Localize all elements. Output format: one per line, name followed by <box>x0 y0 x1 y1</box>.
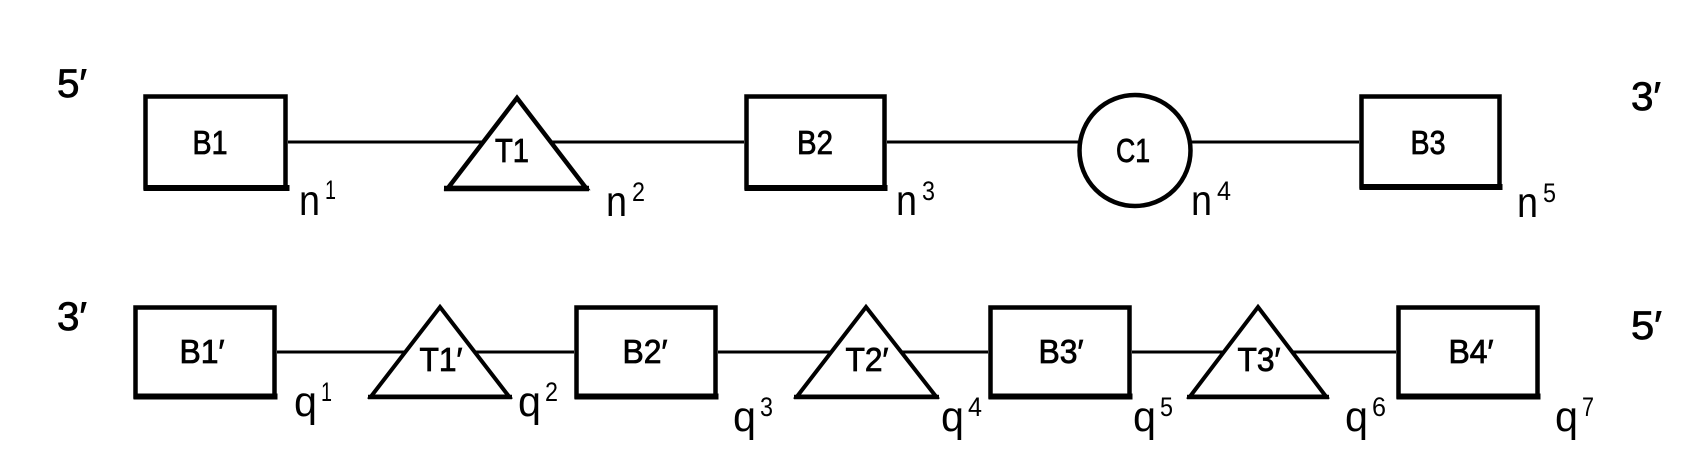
node q2 <box>518 377 558 426</box>
svg-text:B4′: B4′ <box>1449 333 1494 370</box>
node n3 <box>896 176 935 225</box>
svg-text:B1: B1 <box>193 124 228 161</box>
wire n3 (B2 to C1) <box>887 141 1083 144</box>
triangle T3-prime <box>1187 307 1329 397</box>
svg-text:2: 2 <box>545 377 558 407</box>
svg-text:T1: T1 <box>495 132 529 169</box>
svg-text:3′: 3′ <box>1631 75 1661 119</box>
wire n2 (T1 to B2) <box>547 141 744 144</box>
box B3 <box>1360 97 1503 188</box>
triangle T1-prime <box>368 307 512 397</box>
node q3 <box>733 392 773 441</box>
box B1 <box>144 97 290 189</box>
svg-text:n: n <box>1191 177 1212 225</box>
label 3-prime top-right end <box>1631 75 1661 119</box>
svg-text:T3′: T3′ <box>1238 341 1281 378</box>
svg-text:2: 2 <box>632 177 645 207</box>
svg-text:B1′: B1′ <box>180 333 225 370</box>
wire q3 (B2' to T2') <box>718 351 834 354</box>
circle C1 <box>1080 95 1191 206</box>
svg-text:T1′: T1′ <box>420 341 463 378</box>
svg-text:q: q <box>1345 393 1368 441</box>
wire n4 (C1 to B3) <box>1188 141 1359 144</box>
svg-text:3: 3 <box>922 176 935 206</box>
svg-text:B2′: B2′ <box>623 333 668 370</box>
svg-text:n: n <box>896 177 917 225</box>
svg-text:B3: B3 <box>1411 124 1446 161</box>
svg-text:B3′: B3′ <box>1039 333 1084 370</box>
triangle T2-prime <box>794 307 939 397</box>
node q7 <box>1555 392 1594 441</box>
svg-text:q: q <box>1133 393 1156 441</box>
node n1 <box>299 175 336 225</box>
wire q5 (B3' to T3') <box>1132 351 1227 354</box>
svg-text:q: q <box>294 378 317 426</box>
svg-text:q: q <box>941 393 964 441</box>
box B3-prime <box>989 308 1133 397</box>
svg-text:4: 4 <box>968 392 982 422</box>
svg-text:n: n <box>1517 179 1538 227</box>
node n4 <box>1191 176 1231 225</box>
wire n1 (B1 to T1) <box>288 141 486 144</box>
wire q1 (B1' to T1') <box>277 351 408 354</box>
svg-text:n: n <box>299 177 320 225</box>
triangle T1 <box>444 98 589 189</box>
svg-text:q: q <box>1555 393 1578 441</box>
node q1 <box>294 377 332 426</box>
wire q4 (T2' to B3') <box>898 351 988 354</box>
wire q2 (T1' to B2') <box>471 351 574 354</box>
wire q6 (T3' to B4') <box>1290 351 1396 354</box>
box B2 <box>745 97 888 189</box>
svg-text:7: 7 <box>1582 392 1594 422</box>
svg-text:T2′: T2′ <box>846 341 889 378</box>
svg-text:q: q <box>733 393 756 441</box>
svg-text:C1: C1 <box>1116 132 1150 169</box>
node n5 <box>1517 178 1556 227</box>
svg-text:6: 6 <box>1372 392 1386 422</box>
svg-text:5: 5 <box>1160 392 1173 422</box>
svg-text:1: 1 <box>321 377 332 407</box>
node q4 <box>941 392 982 441</box>
box B2-prime <box>575 308 719 397</box>
svg-text:B2: B2 <box>797 124 833 161</box>
svg-text:5′: 5′ <box>57 62 87 106</box>
node q6 <box>1345 392 1386 441</box>
svg-text:5′: 5′ <box>1631 304 1662 348</box>
label 5-prime bottom-right end <box>1631 304 1662 348</box>
node q5 <box>1133 392 1173 441</box>
svg-text:q: q <box>518 378 541 426</box>
svg-text:n: n <box>606 178 627 226</box>
svg-text:5: 5 <box>1543 178 1556 208</box>
label 3-prime bottom-left end <box>57 295 87 339</box>
svg-text:3: 3 <box>760 392 773 422</box>
node n2 <box>606 177 645 226</box>
svg-text:3′: 3′ <box>57 295 87 339</box>
svg-text:1: 1 <box>325 175 336 205</box>
box B4-prime <box>1397 308 1541 397</box>
svg-text:4: 4 <box>1217 176 1231 206</box>
label 5-prime top-left end <box>57 62 87 106</box>
box B1-prime <box>134 308 278 397</box>
